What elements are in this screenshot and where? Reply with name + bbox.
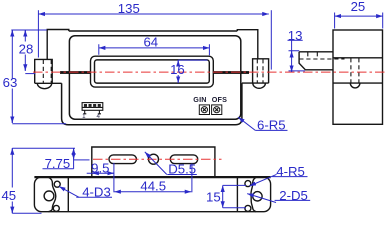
base plate left edge and bottom with rounded corners	[62, 83, 242, 125]
left cap small hole bottom	[53, 205, 59, 211]
dim 16 arrows	[177, 60, 179, 63]
side view hidden lines	[299, 52, 359, 83]
svg-text:4-R5: 4-R5	[276, 164, 305, 179]
right plunger block hidden hole lines	[257, 59, 263, 82]
left plunger block	[35, 59, 53, 83]
dim 7.75 underline	[43, 168, 74, 170]
dim 13 extension lines	[289, 51, 306, 71]
dim 45 bottom extension	[12, 212, 41, 214]
main horizontal centerline	[33, 71, 387, 73]
svg-text:1: 1	[82, 113, 86, 120]
leader 4-D3 underline	[76, 196, 112, 198]
left end cap separator	[67, 177, 69, 212]
svg-text:9.5: 9.5	[91, 160, 109, 175]
dim 63 line	[11, 30, 13, 123]
side view lower section line	[333, 82, 383, 84]
right cap small hole bottom	[245, 205, 251, 211]
svg-text:7.75: 7.75	[45, 156, 71, 171]
dim 63 arrows	[11, 30, 13, 33]
spindle bar left	[60, 71, 91, 74]
svg-text:63: 63	[3, 75, 18, 90]
left plunger housing column	[47, 30, 69, 60]
dim 16 side extension	[178, 59, 207, 61]
right plunger housing column	[237, 30, 257, 59]
bottom view lower plate rounded outline	[34, 177, 270, 212]
extension vertical shared 9.5 and 44.5	[113, 163, 115, 192]
dim 15 line	[222, 185, 224, 207]
dim 63 bottom extension	[12, 123, 66, 125]
dim 64 line	[99, 47, 210, 49]
svg-text:4: 4	[96, 113, 100, 120]
dim 13 underline	[288, 39, 303, 41]
dim 9.5 line	[87, 172, 114, 174]
dim 13 arrows	[291, 51, 293, 54]
dim 135 line	[38, 13, 268, 15]
svg-text:2-D5: 2-D5	[279, 188, 308, 203]
center hole D5.5	[149, 154, 159, 164]
left plunger rounded tip arc	[37, 83, 51, 88]
right end cap separator	[236, 177, 238, 212]
left cap serpentine boundary	[48, 177, 55, 212]
leader D5.5	[145, 152, 167, 175]
svg-text:64: 64	[143, 34, 158, 49]
left cap large hole	[44, 191, 54, 201]
ledge right of base plate / right block bottom	[242, 82, 269, 84]
leader 4-R5 underline	[272, 176, 307, 178]
mounting slot 1	[109, 155, 136, 164]
leader 6-R5 underline	[255, 129, 287, 131]
dim 15 extensions	[223, 185, 246, 207]
right cap small hole top	[245, 181, 251, 187]
dim 135 left extension	[37, 10, 39, 57]
dim 25 line	[335, 15, 383, 17]
connector pins fill	[84, 104, 101, 107]
side view screw hole drill end arc	[350, 83, 360, 88]
dim 7.75 arrow up	[73, 148, 75, 151]
svg-text:16: 16	[170, 62, 185, 77]
screw hole hidden lines	[351, 58, 359, 83]
svg-text:GIN: GIN	[193, 95, 206, 104]
dim 64 extensions	[99, 44, 210, 55]
dim 7.75 lower reference	[74, 159, 90, 161]
dim 45 top extension	[12, 147, 75, 149]
shared top extension line left	[11, 29, 47, 31]
leader 2-D5 underline	[275, 199, 311, 201]
left cap small hole top	[54, 181, 60, 187]
ledge left of base plate / left block bottom	[35, 82, 62, 84]
dim 7.75 vertical	[73, 148, 75, 169]
dim 9.5 arrows	[92, 172, 95, 174]
svg-text:44.5: 44.5	[140, 178, 166, 193]
svg-text:28: 28	[19, 42, 34, 57]
display window inner frame	[95, 60, 210, 83]
dim 44.5 line	[114, 191, 191, 193]
connector block on front	[82, 103, 103, 114]
dim 13 vertical line	[291, 40, 293, 72]
right plunger block	[253, 59, 269, 83]
OFS adjust jack	[212, 105, 222, 115]
dim 45 line	[11, 148, 13, 213]
svg-text:OFS: OFS	[212, 95, 227, 104]
dim 28 line	[24, 30, 26, 71]
arm hidden slot line	[299, 58, 344, 60]
dim 45 arrows	[11, 148, 13, 151]
base plate top edge	[69, 30, 238, 32]
dim 16 line	[177, 60, 179, 83]
cover rounded rectangle	[69, 36, 240, 120]
bottom view divider line	[34, 176, 270, 178]
display window outer frame	[91, 56, 214, 87]
dim 28 bottom extension	[25, 73, 35, 75]
bottom view upper band outline	[92, 147, 215, 177]
bottom view centerline	[93, 158, 222, 160]
svg-text:15: 15	[206, 189, 221, 204]
svg-text:25: 25	[351, 0, 366, 14]
side view arm left edge and chamfer and bottom edge	[299, 52, 333, 70]
leader 2-D5	[247, 194, 276, 203]
svg-text:6-R5: 6-R5	[257, 118, 286, 133]
svg-text:45: 45	[1, 188, 16, 203]
dim 135 right extension	[270, 10, 272, 69]
leader D5.5 underline	[167, 174, 197, 176]
svg-text:13: 13	[288, 28, 303, 43]
svg-text:4-D3: 4-D3	[82, 184, 111, 199]
dim 28 arrows	[24, 30, 26, 33]
arm hidden verticals	[308, 52, 318, 59]
leader 4-R5	[249, 174, 276, 186]
GIN adjust jack	[199, 105, 209, 115]
svg-text:D5.5: D5.5	[168, 162, 196, 177]
right cap serpentine boundary	[251, 177, 256, 212]
dim 25 extensions	[335, 13, 383, 29]
right plunger rounded tip arc	[253, 83, 266, 88]
spindle bar right	[214, 71, 249, 74]
side view arm top edge	[299, 51, 333, 53]
side view body rectangle	[333, 30, 383, 124]
leader 4-D3	[59, 186, 79, 197]
right cap large hole	[253, 192, 262, 201]
left plunger block hidden hole lines	[43, 60, 51, 83]
side view upper section line	[333, 57, 383, 59]
dim 44.5 right extension	[191, 164, 193, 193]
leader 6-R5	[238, 117, 255, 130]
svg-text:135: 135	[118, 1, 140, 16]
mounting slot 2	[170, 155, 197, 164]
